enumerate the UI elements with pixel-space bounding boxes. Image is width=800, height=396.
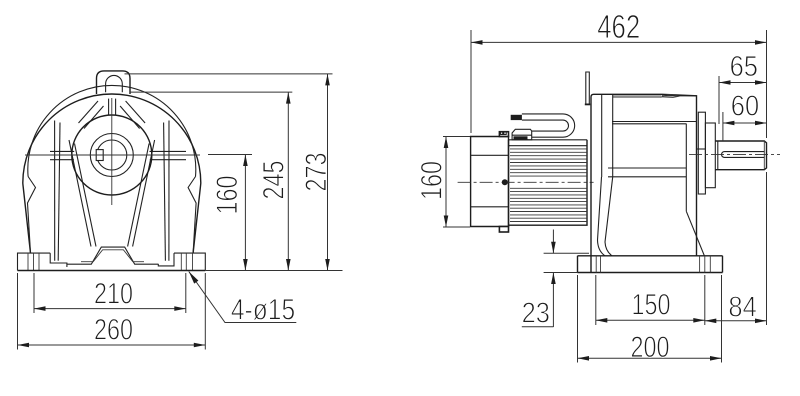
right interior slant rib bbox=[133, 140, 155, 247]
dim 60 extension line bbox=[722, 112, 724, 141]
left horizontal rib bbox=[50, 150, 74, 152]
gearbox lower band bbox=[608, 167, 687, 169]
bump inner line bbox=[81, 250, 144, 262]
output shaft bbox=[715, 141, 766, 170]
svg-text:273: 273 bbox=[299, 152, 332, 191]
dim 84 extension line bbox=[766, 172, 768, 325]
svg-text:260: 260 bbox=[94, 313, 133, 346]
top vertical rib bbox=[108, 99, 110, 116]
svg-text:462: 462 bbox=[597, 9, 640, 46]
svg-text:23: 23 bbox=[522, 296, 550, 329]
dim 23 arrows bbox=[552, 230, 554, 254]
left interior slant rib bbox=[69, 140, 91, 247]
cable gland bbox=[511, 115, 522, 120]
right interior wall lines bbox=[168, 121, 170, 261]
dim 160 extension line (centre) bbox=[208, 154, 252, 156]
dim 160 line bbox=[244, 155, 246, 271]
fan cover top clip bbox=[499, 132, 508, 137]
left foot bbox=[18, 253, 67, 270]
keyway bbox=[96, 150, 103, 161]
dim 200 extension lines bbox=[577, 275, 579, 363]
dim 65 extension line bbox=[718, 76, 720, 124]
motor centre line bbox=[458, 181, 594, 183]
gearbox housing outline bbox=[591, 94, 697, 272]
label 4-o15 leader bbox=[189, 272, 296, 323]
dim 23 extension lines bbox=[544, 252, 589, 254]
svg-text:160: 160 bbox=[210, 175, 243, 214]
bearing circle bbox=[90, 134, 133, 177]
svg-text:150: 150 bbox=[631, 288, 670, 321]
dim 150 line bbox=[596, 319, 705, 321]
svg-text:200: 200 bbox=[630, 330, 669, 363]
left shell pocket zigzag bbox=[28, 177, 36, 254]
svg-text:210: 210 bbox=[94, 277, 133, 310]
bottom profile with centre bump bbox=[67, 247, 158, 264]
terminal box dark strip bbox=[514, 136, 528, 139]
lifting lug outer bbox=[97, 71, 131, 94]
right foot hole marks bbox=[180, 253, 182, 270]
shaft groove bbox=[717, 141, 719, 170]
base bottom edge bbox=[18, 270, 206, 272]
pedestal left inner slant bbox=[605, 177, 613, 256]
motor cooling fins bbox=[510, 149, 587, 222]
gear housing outer profile (front view) bbox=[23, 94, 201, 253]
fan cover bbox=[471, 137, 509, 227]
conduit tube bbox=[522, 114, 575, 137]
dim 462 line bbox=[471, 41, 767, 43]
left interior wall lines bbox=[54, 121, 56, 261]
dim 160 line right view bbox=[445, 137, 447, 228]
motor frame top lines bbox=[509, 139, 587, 141]
gearbox front seam lines bbox=[601, 95, 603, 177]
upper-right diagonal rib bbox=[126, 101, 146, 123]
dim 273 extension line bbox=[125, 73, 333, 75]
bearing housing block bbox=[705, 123, 715, 188]
terminal box bbox=[512, 129, 532, 140]
small connector bbox=[501, 132, 507, 135]
dim 160 extension lines bbox=[443, 136, 470, 138]
output centre line bbox=[689, 153, 780, 155]
fan cover step lines bbox=[471, 154, 509, 156]
dim 245 extension line bbox=[130, 91, 292, 93]
svg-text:4-ø15: 4-ø15 bbox=[231, 292, 295, 326]
output flange block bbox=[698, 112, 705, 194]
dim 273 line bbox=[327, 74, 329, 271]
svg-text:160: 160 bbox=[415, 161, 448, 200]
base plate bbox=[578, 256, 723, 273]
vertical centre line bbox=[111, 98, 113, 205]
dim 150 extension lines bbox=[595, 275, 597, 325]
base bottom edge bbox=[578, 272, 723, 274]
dim 60 line bbox=[723, 122, 767, 124]
gearbox top lip curve bbox=[662, 95, 679, 98]
base right foot hole marks bbox=[699, 256, 701, 273]
dim 200 line bbox=[578, 357, 722, 359]
gearbox upper band bbox=[612, 121, 697, 123]
upper-left diagonal rib bbox=[79, 101, 99, 123]
dim 260 line bbox=[18, 344, 206, 346]
pedestal right slant bbox=[686, 211, 704, 255]
dim 65 line bbox=[719, 82, 767, 84]
gearbox top grey band bbox=[613, 95, 662, 98]
dim 245 line bbox=[287, 92, 289, 270]
svg-text:245: 245 bbox=[257, 160, 290, 199]
pedestal left outer edge bbox=[598, 177, 606, 256]
shaft keyway bbox=[722, 152, 765, 158]
dim 84 line bbox=[705, 320, 767, 322]
right foot bbox=[158, 253, 205, 270]
dim 260 extension lines bbox=[17, 273, 19, 350]
svg-text:65: 65 bbox=[730, 49, 758, 82]
dim 210 line bbox=[34, 308, 186, 310]
motor centre dot bbox=[502, 179, 508, 185]
motor body outline bbox=[509, 140, 588, 225]
lifting lug inner arch bbox=[106, 75, 123, 92]
vent pipe bbox=[586, 72, 590, 104]
inner shell arc bbox=[28, 85, 196, 176]
dim 462 extension lines bbox=[470, 30, 472, 133]
pedestal right seam bbox=[685, 124, 687, 212]
bottom extension line bbox=[205, 270, 342, 272]
right shell pocket zigzag bbox=[188, 177, 196, 254]
base left foot hole marks bbox=[595, 256, 597, 273]
fan cover bottom clip bbox=[499, 227, 508, 233]
right horizontal rib bbox=[150, 150, 187, 152]
svg-text:60: 60 bbox=[731, 89, 759, 122]
left foot hole marks bbox=[27, 253, 29, 270]
gearbox top right edge bbox=[662, 95, 697, 97]
horizontal centre line bbox=[25, 154, 200, 156]
svg-text:84: 84 bbox=[728, 290, 756, 323]
shaft hole circle bbox=[97, 140, 127, 170]
output boss circle bbox=[72, 115, 152, 195]
dim 210 extension lines bbox=[33, 273, 35, 313]
